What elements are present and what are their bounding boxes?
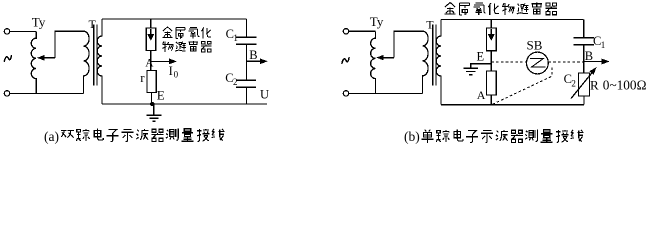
capacitor string right edge top (a) [246, 19, 248, 37]
box bottom edge (a) [102, 103, 267, 105]
arrester MOV rectangle (a) [146, 28, 155, 51]
AC source tilde (b) [342, 57, 349, 64]
svg-text:1: 1 [233, 33, 238, 43]
svg-text:SB: SB [527, 38, 543, 53]
wire top terminal to autotransformer (a) [10, 30, 36, 32]
resistor r rectangle (a) [147, 71, 156, 93]
svg-text:r: r [140, 70, 145, 85]
ground symbol (a) [147, 104, 162, 121]
variable resistor R rectangle (b) [579, 73, 590, 96]
wire C1 to R (b) [583, 45, 585, 73]
lead resistor to bottom edge (a) [151, 93, 153, 105]
wire arrester to node E to resistor (b) [490, 51, 492, 71]
push button SB circle (b) [527, 52, 549, 74]
ground symbol (b) [463, 68, 478, 74]
svg-text:E: E [157, 87, 165, 102]
transformer T primary (b) [423, 31, 429, 93]
svg-text:R: R [590, 78, 599, 93]
svg-text:Ty: Ty [32, 15, 46, 30]
capacitor C2 (a) [236, 80, 256, 87]
box bottom edge (b) [441, 104, 584, 106]
svg-text:2: 2 [233, 77, 238, 87]
tap arrow of Ty (b) [376, 55, 383, 61]
svg-text:U: U [260, 88, 269, 102]
tap riser wire (a) [55, 31, 84, 58]
lead R to bottom edge (b) [583, 96, 585, 105]
tap arrow of Ty (a) [37, 55, 44, 61]
svg-text:A: A [145, 57, 154, 69]
capacitor C1 (b) [574, 38, 595, 45]
transformer T secondary on box left edge (a) [97, 19, 102, 104]
arrester arrow inside (a) [150, 29, 152, 35]
box top edge (a) [102, 18, 247, 20]
svg-text:0: 0 [174, 70, 179, 80]
wire bottom terminal to transformer (a) [10, 92, 84, 94]
svg-text:1: 1 [601, 40, 606, 50]
wire C2 to bottom (a) [246, 87, 248, 104]
ground stub wire (b) [471, 64, 492, 69]
capacitor string right edge top (b) [583, 20, 585, 38]
transformer T primary (a) [84, 31, 90, 93]
dashed line E to SB (b) [491, 61, 526, 63]
current arrow I0 (a) [152, 60, 170, 62]
svg-text:(b): (b) [404, 129, 420, 144]
wire bottom terminal to transformer (b) [349, 92, 423, 94]
wire top terminal to autotransformer (b) [349, 30, 376, 32]
transformer T secondary on box left edge (b) [436, 20, 441, 105]
label 金属氧化 (a) [162, 27, 172, 38]
resistor rectangle (b) [487, 71, 497, 95]
box top edge (b) [441, 19, 584, 21]
label 物避雷器 (a) [162, 41, 173, 52]
tap riser wire (b) [394, 31, 423, 57]
dashed link SB to node A (b) [492, 67, 552, 104]
dashed line SB to B node (b) [548, 61, 583, 63]
junction dot E (a) [150, 102, 154, 106]
wire arrester to node A to resistor (a) [150, 51, 152, 71]
svg-text:E: E [477, 50, 485, 64]
svg-text:B: B [249, 48, 257, 62]
capacitor C1 (a) [236, 37, 256, 44]
title 金属氧化物避雷器 (b) [445, 2, 456, 14]
arrester lead from top (a) [150, 19, 152, 28]
arrester MOV rectangle (b) [487, 28, 497, 51]
arrester arrow inside (b) [490, 29, 492, 35]
arrow B (b) [584, 61, 602, 63]
terminal top-left (a) [4, 29, 9, 34]
transformer T core (a) [94, 25, 97, 86]
wire C1 to C2 (a) [246, 44, 248, 80]
svg-text:Ty: Ty [370, 14, 384, 29]
terminal bottom-left (a) [4, 91, 9, 96]
svg-text:0~100Ω: 0~100Ω [603, 77, 647, 92]
lead resistor to bottom edge (b) [490, 95, 492, 105]
svg-text:A: A [477, 88, 486, 102]
autotransformer Ty coil (b) [371, 31, 376, 93]
arrester lead from top (b) [490, 20, 492, 29]
terminal bottom-left (b) [343, 91, 348, 96]
arrow B (a) [247, 60, 261, 62]
svg-text:I: I [169, 64, 173, 78]
autotransformer Ty coil (a) [31, 31, 36, 93]
AC source tilde (a) [4, 55, 11, 62]
svg-text:T: T [89, 17, 97, 31]
svg-text:2: 2 [571, 79, 576, 89]
terminal top-left (b) [343, 29, 348, 34]
svg-text:(a): (a) [44, 129, 59, 144]
variable resistor diagonal arrow (b) [571, 73, 592, 98]
transformer T core (b) [433, 25, 436, 86]
